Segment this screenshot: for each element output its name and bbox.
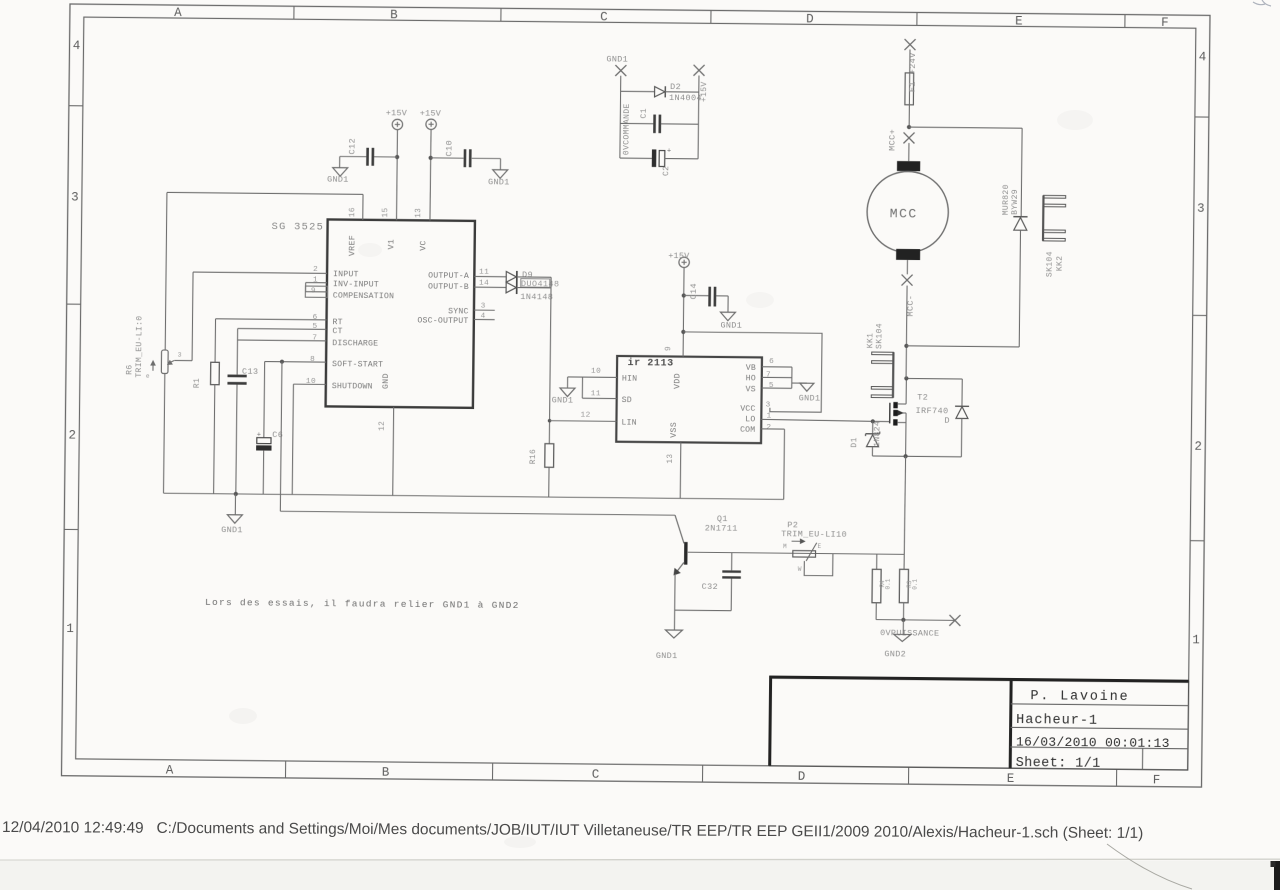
svg-text:E: E	[1007, 772, 1015, 786]
KK2 labels	[1046, 251, 1065, 277]
heatsink KK1 SK104	[871, 352, 893, 398]
svg-text:D2: D2	[670, 82, 681, 92]
trimmer P2 TRIM_EU-LI10	[791, 539, 833, 576]
scan artifact top right corner mark	[1253, 0, 1271, 6]
capacitor C13	[226, 367, 258, 495]
svg-text:VDD: VDD	[673, 373, 682, 389]
U1 left pin names	[332, 270, 395, 392]
svg-text:GND1: GND1	[656, 651, 678, 661]
title block author text	[1030, 689, 1129, 705]
top strip letters A-F	[174, 6, 1169, 30]
svg-text:16/03/2010 00:01:13: 16/03/2010 00:01:13	[1016, 735, 1170, 752]
svg-text:E: E	[818, 543, 822, 550]
motor MCC	[867, 171, 949, 253]
svg-text:LIN: LIN	[621, 419, 636, 428]
U1 pin numbers right	[479, 269, 490, 321]
node junction C12 rail	[395, 155, 399, 159]
svg-text:A: A	[174, 6, 182, 20]
D3 labels MUR820 BYW29	[1002, 184, 1020, 215]
power +15V symbol left	[386, 108, 408, 129]
wire U1 pin1 INV-INPUT to pin9 loop	[306, 283, 327, 292]
svg-text:F1: F1	[908, 81, 918, 92]
resistor R3 sense	[899, 569, 919, 620]
svg-text:Sheet: 1/1: Sheet: 1/1	[1016, 756, 1101, 772]
U2 label ir 2113	[628, 357, 674, 368]
svg-text:TRIM_EU-LI:0: TRIM_EU-LI:0	[135, 315, 145, 377]
svg-text:GND1: GND1	[799, 393, 821, 403]
node junction C14 branch	[682, 293, 686, 297]
svg-text:MCC: MCC	[890, 206, 918, 221]
U1 pin 3 4 stubs sync osc-output	[474, 310, 495, 320]
node junction LIN branch	[548, 419, 552, 423]
svg-text:GND: GND	[382, 373, 391, 389]
P2 labels	[781, 520, 847, 573]
svg-text:11: 11	[479, 269, 489, 277]
svg-text:12: 12	[580, 412, 590, 420]
svg-text:3: 3	[71, 190, 79, 204]
wire +15V to U1 pin 15	[396, 130, 397, 221]
wire U1 pin16 VREF to trimmer top	[165, 192, 363, 352]
U1 pin numbers top 16 15 13	[349, 207, 423, 218]
svg-text:C14: C14	[689, 283, 699, 300]
svg-text:DISCHARGE: DISCHARGE	[332, 339, 378, 348]
svg-text:SHUTDOWN: SHUTDOWN	[332, 382, 373, 391]
svg-text:B: B	[382, 766, 390, 780]
U1 label SG 3525	[271, 221, 324, 234]
net label MCC+	[887, 129, 897, 151]
node junction VCC loop	[681, 330, 685, 334]
U1 pin number 12 bottom	[379, 421, 387, 431]
svg-text:C12: C12	[347, 138, 357, 155]
svg-text:0.1: 0.1	[912, 579, 919, 590]
svg-text:MUR820: MUR820	[1002, 184, 1011, 215]
wire soft-start to Q1 collector	[280, 511, 675, 515]
node junction bus at C13	[234, 492, 238, 496]
svg-text:Hacheur-1: Hacheur-1	[1016, 713, 1098, 729]
U1 pin numbers left	[306, 266, 318, 386]
node junction drain	[904, 376, 908, 380]
scan artifact curve bottom right	[1107, 844, 1192, 889]
plot footer path text	[2, 819, 1143, 842]
svg-text:T2: T2	[917, 392, 928, 402]
op-amp U2 IR2113 body	[616, 356, 762, 443]
D2 labels	[669, 82, 702, 103]
svg-text:16: 16	[349, 207, 357, 217]
svg-text:3: 3	[178, 351, 182, 358]
wire U2 SD tie	[582, 377, 617, 398]
svg-text:A: A	[166, 764, 174, 778]
svg-text:C13: C13	[242, 367, 259, 377]
node junction flyback return	[904, 344, 908, 348]
svg-text:4: 4	[73, 39, 81, 53]
ground GND1 below C10	[488, 158, 510, 187]
svg-text:D: D	[944, 416, 950, 426]
inner border frame	[76, 17, 1196, 770]
wire R6 bottom to ground bus	[164, 373, 165, 493]
wire 24V node to flyback diode	[908, 127, 1022, 217]
capacitor C6 electrolytic	[256, 361, 284, 494]
wire flyback diode to drain line	[906, 229, 1020, 347]
note text lors des essais	[205, 597, 520, 611]
transistor Q1 2N1711	[673, 515, 686, 630]
svg-text:SYNC: SYNC	[448, 307, 469, 316]
svg-text:1: 1	[1192, 633, 1200, 647]
svg-text:MCC+: MCC+	[887, 129, 897, 151]
motor MCC bottom brush	[896, 249, 920, 275]
svg-text:ir 2113: ir 2113	[628, 357, 674, 368]
right coordinate strip ticks	[1190, 117, 1209, 541]
U2 right pin names	[740, 364, 756, 435]
capacitor C2 electrolytic	[620, 147, 699, 176]
svg-text:F: F	[1161, 16, 1169, 30]
svg-text:GND1: GND1	[221, 525, 243, 535]
svg-text:R1: R1	[193, 378, 202, 388]
node junction source	[903, 454, 907, 458]
svg-text:1N4004: 1N4004	[669, 93, 702, 103]
svg-text:2: 2	[68, 429, 76, 443]
svg-text:13: 13	[415, 208, 423, 218]
svg-text:INPUT: INPUT	[333, 270, 359, 279]
svg-text:V1: V1	[387, 239, 396, 250]
svg-text:+: +	[257, 432, 262, 440]
wire U2 pin13 VSS to ground bus	[679, 442, 682, 498]
svg-text:0VCOMMANDE: 0VCOMMANDE	[622, 103, 632, 155]
diode D9 dual 1N4148	[506, 271, 517, 294]
svg-text:2: 2	[313, 266, 318, 274]
wire D9 down to R16 and LIN	[549, 288, 551, 444]
net 0VCOMMANDE wire	[619, 76, 622, 158]
svg-text:M: M	[783, 543, 787, 550]
svg-text:7: 7	[312, 335, 317, 343]
net label 0VPUISSANCE	[880, 628, 939, 639]
svg-text:VREF: VREF	[348, 235, 357, 256]
svg-text:GND1: GND1	[488, 177, 510, 187]
capacitor C32	[675, 552, 741, 611]
resistor R1	[192, 319, 327, 495]
U2 pin numbers	[580, 345, 774, 465]
svg-text:+: +	[667, 148, 672, 156]
node junction soft-start	[280, 360, 284, 364]
svg-text:3: 3	[1197, 202, 1205, 216]
svg-text:C32: C32	[702, 582, 719, 592]
svg-text:+15V: +15V	[668, 251, 690, 261]
net 0VPUISSANCE terminal X	[949, 615, 960, 626]
wire VCC loop to U2 pin 3	[682, 332, 822, 412]
wire LIN to R16 node	[550, 420, 617, 423]
D9 labels	[520, 270, 559, 302]
wire U1 SHUTDOWN to ground bus	[292, 384, 326, 495]
svg-text:C: C	[592, 768, 600, 782]
svg-text:OSC-OUTPUT: OSC-OUTPUT	[417, 316, 468, 325]
U1 right pin names	[417, 271, 469, 325]
diode D3 MUR820 flyback	[1013, 217, 1027, 231]
resistor R4 sense	[872, 554, 892, 620]
outer border frame	[61, 4, 1210, 787]
capacitor C10	[431, 140, 501, 168]
svg-text:P. Lavoine: P. Lavoine	[1030, 689, 1129, 705]
wire +15V VDD to U2 pin 9	[682, 267, 685, 356]
wire U1 pin12 GND to bus	[392, 407, 395, 495]
rectangle around pin 9 compensation	[305, 286, 327, 297]
svg-text:KK1: KK1	[866, 333, 875, 349]
svg-text:0VPUISSANCE: 0VPUISSANCE	[880, 628, 939, 639]
svg-text:COM: COM	[740, 426, 755, 435]
svg-text:2N1711: 2N1711	[705, 523, 738, 533]
svg-text:SD: SD	[622, 396, 632, 405]
svg-text:GND1: GND1	[552, 395, 574, 405]
svg-text:6: 6	[313, 314, 318, 322]
KK1 labels	[866, 323, 884, 349]
ground GND1 terminal X top	[606, 54, 628, 76]
net label +15V right	[700, 81, 709, 102]
svg-text:2: 2	[766, 424, 771, 432]
svg-text:SOFT-START: SOFT-START	[332, 360, 383, 369]
svg-text:5: 5	[312, 323, 317, 331]
svg-text:11: 11	[591, 390, 601, 398]
top coordinate strip ticks	[294, 6, 1125, 27]
net label 0VCOMMANDE	[622, 103, 632, 155]
net +15V terminal X top	[693, 65, 704, 76]
net MCC+ terminal X	[903, 132, 914, 143]
svg-text:VCC: VCC	[740, 405, 755, 414]
wire soft-start node down to Q1 line	[280, 362, 282, 512]
svg-text:E: E	[1015, 14, 1023, 28]
U2 interior pin names VDD VSS	[670, 373, 683, 438]
capacitor C1	[620, 108, 698, 134]
svg-text:10: 10	[591, 368, 601, 376]
wire U2 HIN to GND1	[568, 376, 617, 378]
heatsink KK2 SK104	[1043, 195, 1066, 241]
svg-text:OUTPUT-B: OUTPUT-B	[428, 282, 469, 291]
svg-text:VS: VS	[746, 385, 756, 394]
trimmer R6 TRIM_EU-LI:0 body	[151, 350, 174, 374]
wire +15V to U1 pin 13	[430, 129, 431, 220]
svg-text:D: D	[798, 770, 806, 784]
svg-text:SK104: SK104	[875, 323, 884, 349]
wire U2 LO to T2 gate	[761, 419, 889, 421]
wire T2 body diode to source	[960, 418, 962, 456]
svg-text:TRIM_EU-LI10: TRIM_EU-LI10	[781, 529, 847, 540]
svg-text:R6: R6	[125, 364, 134, 374]
scan paper lower edge	[0, 859, 1280, 890]
svg-text:RT: RT	[332, 318, 342, 327]
Q1 labels	[705, 514, 738, 534]
svg-text:SK104: SK104	[1046, 251, 1055, 277]
diode T2 body diode	[955, 406, 969, 418]
svg-text:BYW29: BYW29	[1011, 189, 1020, 215]
motor MCC top brush	[897, 143, 921, 171]
node junction D1 gate	[871, 419, 875, 423]
title block sheet text	[1016, 756, 1101, 772]
svg-text:F: F	[1153, 774, 1161, 788]
svg-text:C1: C1	[640, 108, 649, 118]
svg-text:GND1: GND1	[327, 175, 349, 185]
svg-text:VC: VC	[419, 240, 428, 251]
svg-text:1: 1	[66, 622, 74, 636]
svg-text:13: 13	[667, 454, 675, 464]
svg-text:INV-INPUT: INV-INPUT	[333, 280, 379, 289]
D1 labels	[850, 421, 882, 448]
net +24V terminal X	[904, 39, 915, 50]
wire U1 CT to C13	[237, 329, 326, 376]
svg-text:HO: HO	[746, 374, 756, 383]
resistor R16	[529, 444, 554, 498]
ground GND2	[884, 620, 911, 660]
ground GND1 below Q1	[656, 630, 683, 661]
bottom strip letters A-F	[166, 764, 1161, 788]
svg-text:GND1: GND1	[606, 54, 628, 64]
svg-text:GND1: GND1	[720, 321, 742, 331]
svg-text:SG 3525: SG 3525	[271, 221, 324, 234]
svg-text:HIN: HIN	[622, 375, 637, 384]
svg-text:D: D	[806, 12, 814, 26]
svg-text:B: B	[390, 8, 398, 22]
bottom coordinate strip ticks	[285, 761, 1116, 786]
svg-text:D1: D1	[850, 437, 859, 447]
svg-text:e: e	[146, 373, 150, 380]
svg-text:+15V: +15V	[420, 108, 442, 118]
power +15V symbol right	[420, 108, 442, 129]
svg-text:CT: CT	[332, 327, 342, 336]
wire source bottom	[872, 455, 961, 458]
svg-text:VSS: VSS	[670, 422, 679, 438]
U1 interior vertical pin names VREF V1 VC GND	[347, 235, 429, 390]
T2 labels	[915, 392, 950, 425]
svg-text:C2: C2	[662, 166, 671, 176]
svg-text:KK2: KK2	[1056, 256, 1065, 272]
wire R6 wiper to U1 INPUT	[174, 272, 327, 362]
svg-text:OUTPUT-A: OUTPUT-A	[428, 271, 469, 280]
svg-text:W: W	[798, 566, 802, 573]
U2 left pin names	[621, 375, 637, 428]
right strip numbers 4-1	[1192, 50, 1206, 647]
svg-text:14: 14	[479, 280, 489, 288]
diode D1 zener gate protection	[865, 421, 880, 456]
svg-text:VB: VB	[746, 364, 756, 373]
svg-text:8: 8	[310, 356, 315, 364]
svg-text:+15V: +15V	[386, 108, 408, 118]
wire sense bottom to 0VPUISSANCE	[876, 619, 955, 622]
wire U1 SOFT-START	[265, 361, 326, 364]
svg-text:1N824: 1N824	[873, 421, 882, 447]
wire Q1 base line	[688, 552, 904, 554]
svg-text:R16: R16	[529, 449, 538, 465]
svg-text:12: 12	[379, 421, 387, 431]
node junction C10 rail	[429, 156, 433, 160]
fuse F1	[905, 49, 918, 127]
title block outline	[768, 676, 1188, 770]
net MCC- terminal X	[901, 275, 912, 286]
scan artifact black strip bottom right edge	[1271, 861, 1280, 890]
wire U2 VB HO VS tie	[762, 367, 807, 389]
wire D9 cathodes join	[517, 277, 551, 288]
ground GND1 below C14	[720, 296, 742, 331]
R6 designator text	[125, 315, 182, 380]
svg-text:GND2: GND2	[884, 649, 906, 659]
title block name text	[1016, 713, 1098, 729]
net label +24V	[908, 52, 918, 75]
svg-text:C: C	[600, 10, 608, 24]
power +15V symbol above U2	[668, 251, 690, 268]
node junction 24V rail	[907, 125, 911, 129]
net label MCC-	[906, 295, 916, 317]
ground GND1 below C12	[327, 156, 349, 184]
svg-text:0.1: 0.1	[885, 578, 892, 589]
wire T2 drain loop	[906, 378, 962, 406]
svg-text:COMPENSATION: COMPENSATION	[333, 292, 394, 302]
svg-text:5: 5	[769, 382, 774, 390]
svg-text:2: 2	[1194, 440, 1202, 454]
title block row lines	[1010, 704, 1188, 770]
title block date text	[1016, 735, 1170, 752]
svg-text:7: 7	[766, 372, 771, 380]
svg-text:9: 9	[665, 346, 673, 351]
left strip numbers 4-1	[66, 39, 80, 636]
node junction GND2	[901, 618, 905, 622]
left coordinate strip ticks	[64, 106, 83, 530]
svg-text:6: 6	[769, 358, 774, 366]
svg-text:1N4148: 1N4148	[520, 292, 553, 302]
wire U2 COM to ground bus	[760, 429, 784, 500]
ground GND1 below bus	[221, 494, 243, 535]
transistor T2 IRF740 mosfet	[889, 378, 906, 456]
wire ground bus GND1	[164, 493, 784, 499]
ground GND1 at VS	[799, 383, 821, 403]
wire U1 DISCHARGE junction	[238, 339, 327, 342]
svg-text:4: 4	[1199, 50, 1207, 64]
svg-text:LO: LO	[745, 415, 755, 424]
wire U1 OUTPUT-B to D9	[474, 286, 506, 288]
wire MCC- to drain node	[906, 286, 907, 379]
diode D2 1N4004	[621, 86, 699, 98]
capacitor C12	[340, 138, 398, 166]
wire +15V drop	[697, 76, 700, 159]
wire U1 OUTPUT-A to D9	[474, 275, 506, 277]
ground GND1 at HIN	[552, 377, 576, 406]
svg-text:C10: C10	[444, 140, 454, 157]
wire source to sense resistors	[904, 456, 906, 569]
svg-text:15: 15	[382, 207, 390, 217]
op-amp U1 SG3525 body	[326, 219, 475, 407]
capacitor C14	[684, 283, 729, 307]
